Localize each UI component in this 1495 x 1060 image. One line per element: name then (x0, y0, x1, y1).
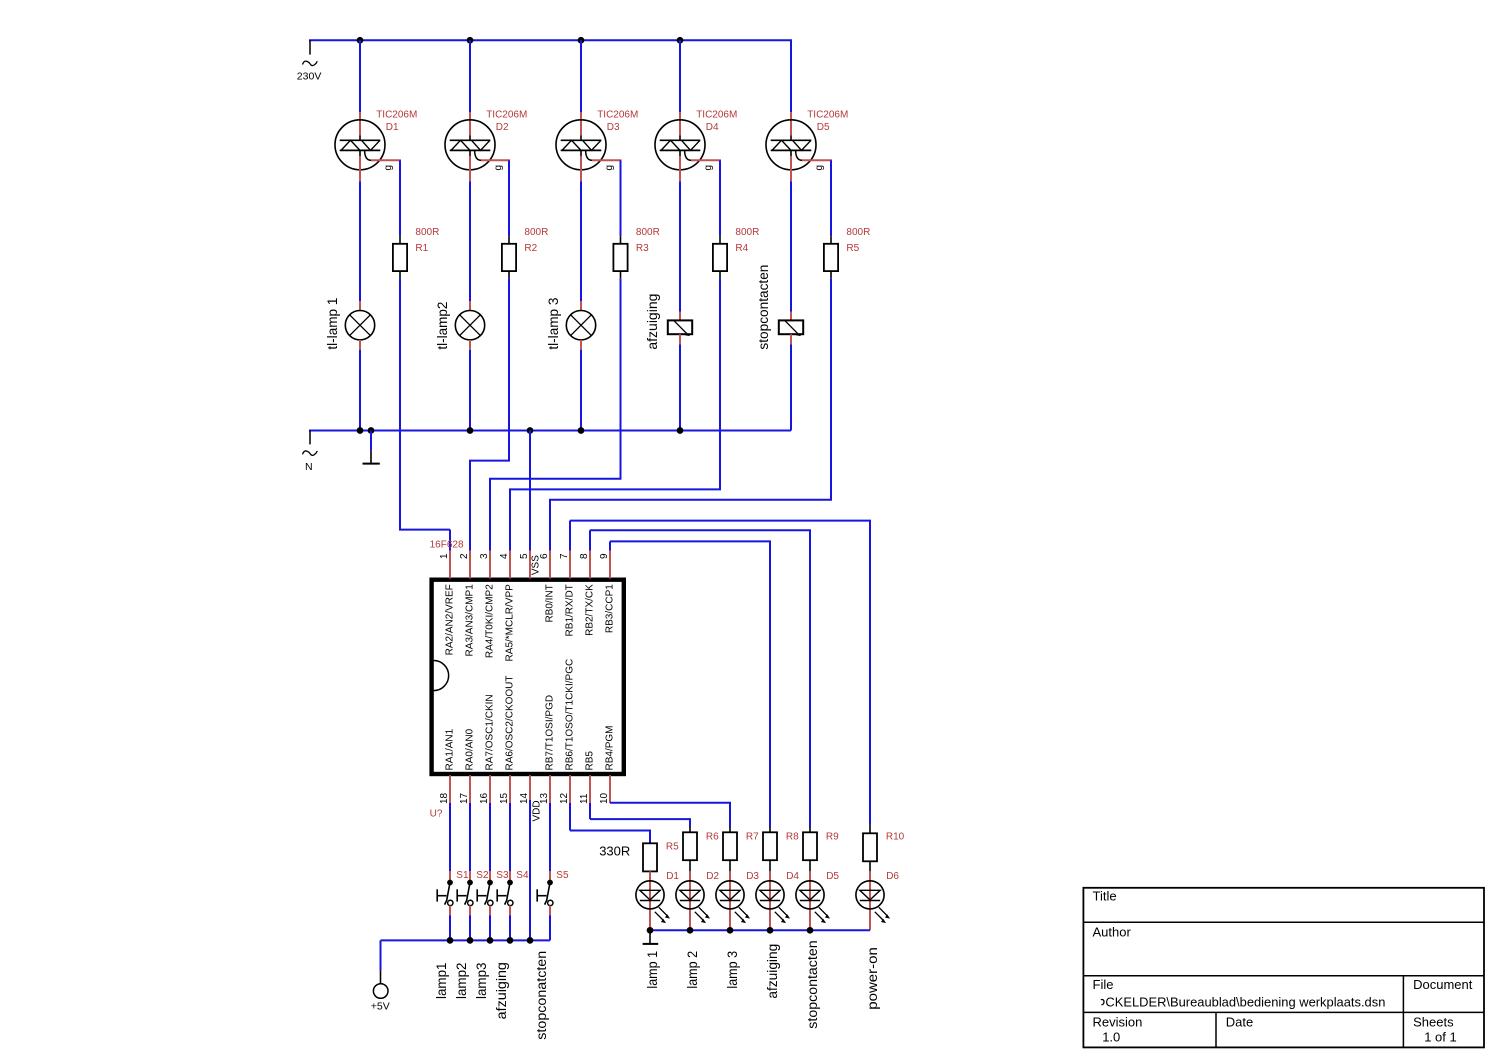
svg-text:800R: 800R (636, 227, 660, 238)
svg-text:RB3/CCP1: RB3/CCP1 (604, 584, 615, 633)
svg-text:R3: R3 (636, 243, 649, 254)
svg-text:17: 17 (459, 792, 470, 804)
svg-text:D6: D6 (886, 871, 899, 882)
svg-text:S3: S3 (496, 870, 509, 881)
svg-text:g: g (383, 165, 394, 171)
svg-text:800R: 800R (415, 227, 439, 238)
svg-text:RA7/OSC1/CKIN: RA7/OSC1/CKIN (484, 694, 495, 770)
svg-text:3: 3 (479, 553, 490, 559)
svg-text:D3: D3 (607, 122, 620, 133)
svg-text:RB6/T1OSO/T1CKI/PGC: RB6/T1OSO/T1CKI/PGC (564, 659, 575, 771)
svg-text:800R: 800R (524, 227, 548, 238)
svg-text:TIC206M: TIC206M (807, 109, 848, 120)
svg-text:1.0: 1.0 (1102, 1029, 1120, 1044)
svg-text:16: 16 (479, 792, 490, 804)
svg-text:800R: 800R (735, 227, 759, 238)
svg-text:RA2/AN2/VREF: RA2/AN2/VREF (444, 584, 455, 655)
svg-text:D2: D2 (496, 122, 509, 133)
svg-text:RA4/T0KI/CMP2: RA4/T0KI/CMP2 (484, 584, 495, 658)
svg-text:D1: D1 (666, 871, 679, 882)
svg-text:D4: D4 (706, 122, 719, 133)
svg-text:Title: Title (1093, 888, 1117, 903)
svg-text:RA1/AN1: RA1/AN1 (444, 728, 455, 770)
svg-text:R4: R4 (735, 243, 748, 254)
svg-text:R8: R8 (786, 832, 799, 843)
svg-text:RB2/TX/CK: RB2/TX/CK (584, 584, 595, 636)
svg-text:15: 15 (499, 792, 510, 804)
svg-text:VDD: VDD (532, 800, 543, 821)
svg-text:RB4/PGM: RB4/PGM (604, 725, 615, 770)
svg-text:RA0/AN0: RA0/AN0 (464, 728, 475, 770)
svg-text:lamp3: lamp3 (474, 963, 489, 1000)
svg-text:R7: R7 (746, 832, 759, 843)
svg-text:TIC206M: TIC206M (696, 109, 737, 120)
svg-text:Revision: Revision (1093, 1015, 1143, 1030)
svg-text:RB0/INT: RB0/INT (544, 584, 555, 622)
svg-text:g: g (493, 165, 504, 171)
svg-text:g: g (703, 165, 714, 171)
svg-text:TIC206M: TIC206M (376, 109, 417, 120)
svg-text:CKELDER\Bureaublad\bediening w: CKELDER\Bureaublad\bediening werkplaats.… (1105, 995, 1385, 1010)
svg-text:Author: Author (1093, 925, 1132, 940)
svg-text:10: 10 (599, 792, 610, 804)
svg-text:stopcontacten: stopcontacten (805, 940, 820, 1028)
svg-text:RB7/T1OSI/PGD: RB7/T1OSI/PGD (544, 695, 555, 771)
svg-text:9: 9 (599, 553, 610, 559)
svg-text:lamp2: lamp2 (454, 963, 469, 1000)
svg-text:power-on: power-on (865, 947, 880, 1010)
svg-text:330R: 330R (599, 844, 630, 859)
svg-text:lamp 2: lamp 2 (685, 951, 700, 989)
svg-text:U?: U? (430, 808, 443, 819)
svg-text:R1: R1 (415, 243, 428, 254)
svg-text:+5V: +5V (371, 1000, 390, 1012)
svg-text:S2: S2 (476, 870, 489, 881)
svg-text:File: File (1093, 977, 1114, 992)
svg-text:R9: R9 (826, 832, 839, 843)
svg-text:TIC206M: TIC206M (597, 109, 638, 120)
svg-text:1 of 1: 1 of 1 (1424, 1029, 1457, 1044)
svg-text:12: 12 (559, 792, 570, 804)
svg-text:lamp1: lamp1 (434, 963, 449, 1000)
svg-text:stopconatcten: stopconatcten (534, 951, 549, 1040)
svg-text:afzuiging: afzuiging (765, 944, 780, 999)
svg-text:1: 1 (439, 553, 450, 559)
svg-text:N: N (305, 461, 313, 473)
svg-text:g: g (814, 165, 825, 171)
svg-text:R5: R5 (846, 243, 859, 254)
svg-text:2: 2 (459, 553, 470, 559)
svg-text:S4: S4 (516, 870, 529, 881)
svg-text:RA3/AN3/CMP1: RA3/AN3/CMP1 (464, 584, 475, 657)
svg-text:afzuiging: afzuiging (645, 294, 660, 350)
svg-text:VSS: VSS (531, 555, 542, 575)
svg-text:D2: D2 (706, 871, 719, 882)
svg-text:Date: Date (1226, 1015, 1253, 1030)
svg-text:18: 18 (439, 792, 450, 804)
svg-text:8: 8 (579, 553, 590, 559)
svg-text:16F628: 16F628 (430, 540, 464, 551)
svg-text:RA6/OSC2/CKOOUT: RA6/OSC2/CKOOUT (504, 675, 515, 770)
svg-text:S5: S5 (556, 870, 569, 881)
svg-text:lamp 1: lamp 1 (645, 951, 660, 989)
svg-text:R6: R6 (706, 832, 719, 843)
svg-text:D4: D4 (786, 871, 799, 882)
svg-text:RA5/*MCLR/VPP: RA5/*MCLR/VPP (504, 584, 515, 662)
svg-text:lamp 3: lamp 3 (725, 951, 740, 989)
svg-text:tl-lamp2: tl-lamp2 (435, 302, 450, 350)
svg-text:R2: R2 (524, 243, 537, 254)
svg-text:D5: D5 (826, 871, 839, 882)
svg-text:TIC206M: TIC206M (486, 109, 527, 120)
svg-text:S1: S1 (456, 870, 469, 881)
svg-text:800R: 800R (846, 227, 870, 238)
svg-text:tl-lamp 3: tl-lamp 3 (546, 298, 561, 350)
svg-text:14: 14 (519, 792, 530, 804)
svg-text:D3: D3 (746, 871, 759, 882)
svg-text:D1: D1 (386, 122, 399, 133)
svg-text:D5: D5 (817, 122, 830, 133)
svg-text:4: 4 (499, 553, 510, 559)
svg-text:g: g (604, 165, 615, 171)
svg-text:afzuiging: afzuiging (494, 962, 509, 1019)
svg-text:5: 5 (519, 553, 530, 559)
svg-text:R5: R5 (666, 841, 679, 852)
svg-text:stopcontacten: stopcontacten (756, 265, 771, 350)
svg-text:RB1/RX/DT: RB1/RX/DT (564, 584, 575, 636)
svg-text:R10: R10 (886, 832, 905, 843)
svg-text:tl-lamp 1: tl-lamp 1 (325, 298, 340, 350)
svg-text:Document: Document (1413, 977, 1473, 992)
svg-text:7: 7 (559, 553, 570, 559)
svg-text:230V: 230V (297, 71, 322, 83)
svg-text:11: 11 (579, 793, 590, 804)
svg-text:RB5: RB5 (584, 751, 595, 771)
svg-text:Sheets: Sheets (1413, 1015, 1454, 1030)
